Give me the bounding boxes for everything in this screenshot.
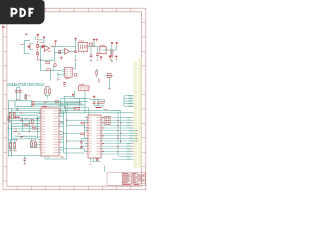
USB connector X2 bbox=[15, 99, 34, 107]
resistor R13 bbox=[46, 61, 49, 63]
ICSP header ICSP1 bbox=[105, 116, 110, 124]
wire (16U2 left harness) bbox=[8, 116, 42, 139]
wire (USB D+/D- long nets) bbox=[9, 102, 88, 157]
capacitor C11 bbox=[93, 102, 96, 104]
capacitor PC2 bbox=[96, 54, 99, 56]
capacitor C4 bbox=[23, 159, 26, 161]
ground symbols (power section) bbox=[37, 60, 114, 61]
crystal Y2 caps bbox=[30, 142, 32, 148]
wire (resonator leads) bbox=[75, 91, 86, 113]
net labels (header upper AD) bbox=[129, 95, 133, 107]
value label (S1) bbox=[98, 78, 99, 82]
ground (USB shield) bbox=[16, 107, 18, 111]
IC ZU4 (ATmega328P) bbox=[88, 115, 101, 158]
junction dots (left harness) bbox=[11, 118, 38, 133]
IC U3 (ATmega16U2) bbox=[41, 106, 59, 156]
value label (C1) bbox=[9, 149, 12, 152]
value label (above 16U2) bbox=[44, 101, 48, 104]
wire (16U2 left pins) bbox=[36, 111, 41, 147]
junction (D lines) bbox=[60, 103, 61, 104]
wire (328 right bus to headers) bbox=[67, 111, 139, 160]
wire (C10/C11 leads) bbox=[90, 99, 105, 105]
wire (AD header stubs) bbox=[124, 96, 134, 106]
value label (328 right) bbox=[104, 108, 108, 111]
op-amp U5B bbox=[65, 48, 70, 54]
pin numbers (328 left) bbox=[86, 117, 88, 153]
junction (op-amp output) bbox=[52, 46, 53, 47]
fuse F1 on +USBVCC column bbox=[37, 34, 39, 60]
junction dots (bus) bbox=[103, 117, 122, 152]
capacitor C1 bbox=[10, 143, 12, 149]
capacitor PC1 bbox=[90, 55, 93, 57]
wire (comparator feedback) bbox=[40, 47, 75, 81]
value label (RN1) bbox=[20, 136, 23, 139]
power flag (ladder) bbox=[72, 94, 74, 97]
crystal Y1 (CSTCE16M resonator) bbox=[79, 86, 89, 91]
ground (below U5) bbox=[63, 86, 65, 88]
value label (X1) bbox=[21, 43, 24, 46]
resistor (harness top-left) bbox=[8, 116, 10, 120]
header POWER/AD (yellow connector column) bbox=[134, 62, 137, 169]
diode D3 (reset) bbox=[81, 122, 84, 124]
regulator U2 (LP2985 3.3V) bbox=[100, 46, 106, 53]
value label (U5) bbox=[65, 77, 69, 80]
power flag (above U5) bbox=[60, 57, 62, 60]
LED RX (with resistor) bbox=[44, 87, 46, 96]
power flag +5V (above D1) bbox=[43, 37, 45, 40]
wire (16U2/328 interconnect ladder) bbox=[58, 96, 134, 115]
PDF badge bbox=[0, 0, 45, 24]
power flag (right, IOREF) bbox=[116, 42, 118, 45]
value label (16U2 bottom) bbox=[60, 156, 63, 159]
value label (Y2) bbox=[31, 139, 35, 142]
varistor Z1 bbox=[9, 112, 11, 117]
pin numbers (328 right) bbox=[101, 117, 102, 153]
transistor T1 (FDN340P) bbox=[78, 42, 88, 51]
capacitor C13 (ladder) bbox=[74, 108, 77, 110]
resistor R1 (reset pull-up) bbox=[81, 133, 85, 135]
wire (16U2 bottom pins) bbox=[45, 156, 67, 159]
value label (C2) bbox=[14, 149, 17, 152]
net labels (left harness) bbox=[8, 119, 34, 135]
inductor L1 bbox=[25, 95, 27, 99]
capacitor C12 bbox=[80, 141, 83, 143]
junction (5V rail) bbox=[93, 46, 94, 47]
value label (op-amp) bbox=[48, 50, 52, 53]
power jack X1 bbox=[24, 40, 30, 53]
power flag (above U1) bbox=[93, 39, 95, 41]
pin dots (header rows) bbox=[132, 117, 138, 154]
wire (C4 leads) bbox=[9, 156, 43, 164]
capacitor C14 (ladder) bbox=[77, 108, 80, 110]
resistor RN2A bbox=[15, 117, 17, 119]
capacitor C15 (below 328) bbox=[96, 159, 99, 160]
value label (LEDs) bbox=[45, 85, 50, 88]
header IOL/IOH (yellow connector column) bbox=[138, 58, 142, 168]
regulator U1 (NCP1117) bbox=[90, 43, 93, 45]
pushbutton RESET (S1) bbox=[105, 73, 113, 89]
resistor R10 bbox=[59, 50, 61, 53]
value label (RN2) bbox=[14, 130, 17, 133]
power flag (AVCC) bbox=[115, 56, 117, 61]
net labels (16U2 bus) bbox=[60, 122, 63, 138]
wire (16U2 right bus) bbox=[59, 111, 67, 160]
title block bbox=[107, 172, 145, 185]
wire (LED rail) bbox=[45, 96, 49, 99]
value label (D1) bbox=[41, 41, 45, 44]
wire (C1/C2 leads) bbox=[9, 140, 18, 149]
resistor R12 (right of U5) bbox=[74, 74, 77, 76]
resistor R11 bbox=[47, 69, 51, 71]
ground (below 328) bbox=[89, 163, 91, 165]
diode D2 (on 3V3 column) bbox=[111, 50, 113, 53]
diode D1 bbox=[42, 45, 45, 49]
power flag (AREF) bbox=[109, 56, 111, 61]
wire (16U2 to 328 nets) bbox=[64, 120, 89, 153]
power flag +3V3 bbox=[111, 42, 113, 45]
resistor R3 (on D+ line) bbox=[55, 101, 59, 103]
value label (L1) bbox=[28, 94, 31, 97]
capacitor C10 bbox=[97, 102, 100, 104]
resistor R4 (near resonator) bbox=[96, 71, 98, 75]
capacitor (USB filter) bbox=[15, 91, 21, 93]
wire (328 left pins) bbox=[85, 118, 89, 152]
capacitor C2 bbox=[14, 143, 16, 149]
wire (reset net) bbox=[81, 138, 88, 146]
wire (USB shield nets) bbox=[9, 88, 26, 157]
svg-text:Arduino(TM) UNO Rev3: Arduino(TM) UNO Rev3 bbox=[7, 82, 45, 87]
resistor R6 (divider) bbox=[54, 64, 56, 67]
LED TX (with resistor) bbox=[49, 87, 51, 96]
op-amp U5A bbox=[44, 45, 49, 51]
resistor RN1B bbox=[32, 127, 35, 129]
junction (USB gnd) bbox=[21, 112, 22, 113]
wire (328 bottom pins) bbox=[91, 158, 101, 161]
tiny refdes text (top-left corner) bbox=[2, 27, 5, 28]
value label (U2) bbox=[100, 44, 105, 47]
schematic sheet frame bbox=[3, 8, 146, 190]
capacitor C6 bbox=[110, 55, 113, 57]
value label (T1) bbox=[79, 40, 84, 43]
value label (ZU4) bbox=[96, 107, 102, 108]
capacitor C16 bbox=[80, 146, 83, 147]
junction (XTAL) bbox=[16, 139, 17, 140]
resistor R2 bbox=[101, 102, 104, 104]
net labels (header wires right) bbox=[127, 117, 134, 160]
capacitor C9 (below U5) bbox=[63, 83, 66, 85]
ground (C4) bbox=[24, 163, 26, 164]
varistor Z2 bbox=[13, 112, 15, 117]
wire (divider) bbox=[54, 65, 63, 79]
wire (Y2 leads) bbox=[25, 139, 37, 148]
junction (ladder) bbox=[60, 102, 80, 111]
pin numbers (16U2) bbox=[39, 111, 60, 153]
op-amp U5 (LMV358 body) bbox=[65, 67, 72, 77]
power flag +VIN bbox=[55, 40, 57, 46]
wire (gnd stub near title block) bbox=[104, 166, 106, 173]
resistor RN1A bbox=[31, 119, 33, 124]
value label (Y1) bbox=[79, 83, 84, 86]
wire (power input net) bbox=[30, 36, 117, 62]
junction (comparator) bbox=[40, 60, 41, 61]
capacitor C (on +5V column) bbox=[74, 51, 77, 53]
power flag (C6 column) bbox=[100, 56, 102, 60]
ground (divider) bbox=[57, 79, 59, 80]
junction (interconnect) bbox=[63, 120, 67, 142]
power flag (above 328) bbox=[93, 96, 95, 99]
resistor RN2B bbox=[24, 124, 28, 126]
value label (X1 top) bbox=[25, 34, 28, 35]
power flag +5V (right of U1) bbox=[96, 39, 98, 42]
power flag (above T1 gate) bbox=[75, 38, 77, 41]
ground (USB) bbox=[20, 119, 23, 120]
